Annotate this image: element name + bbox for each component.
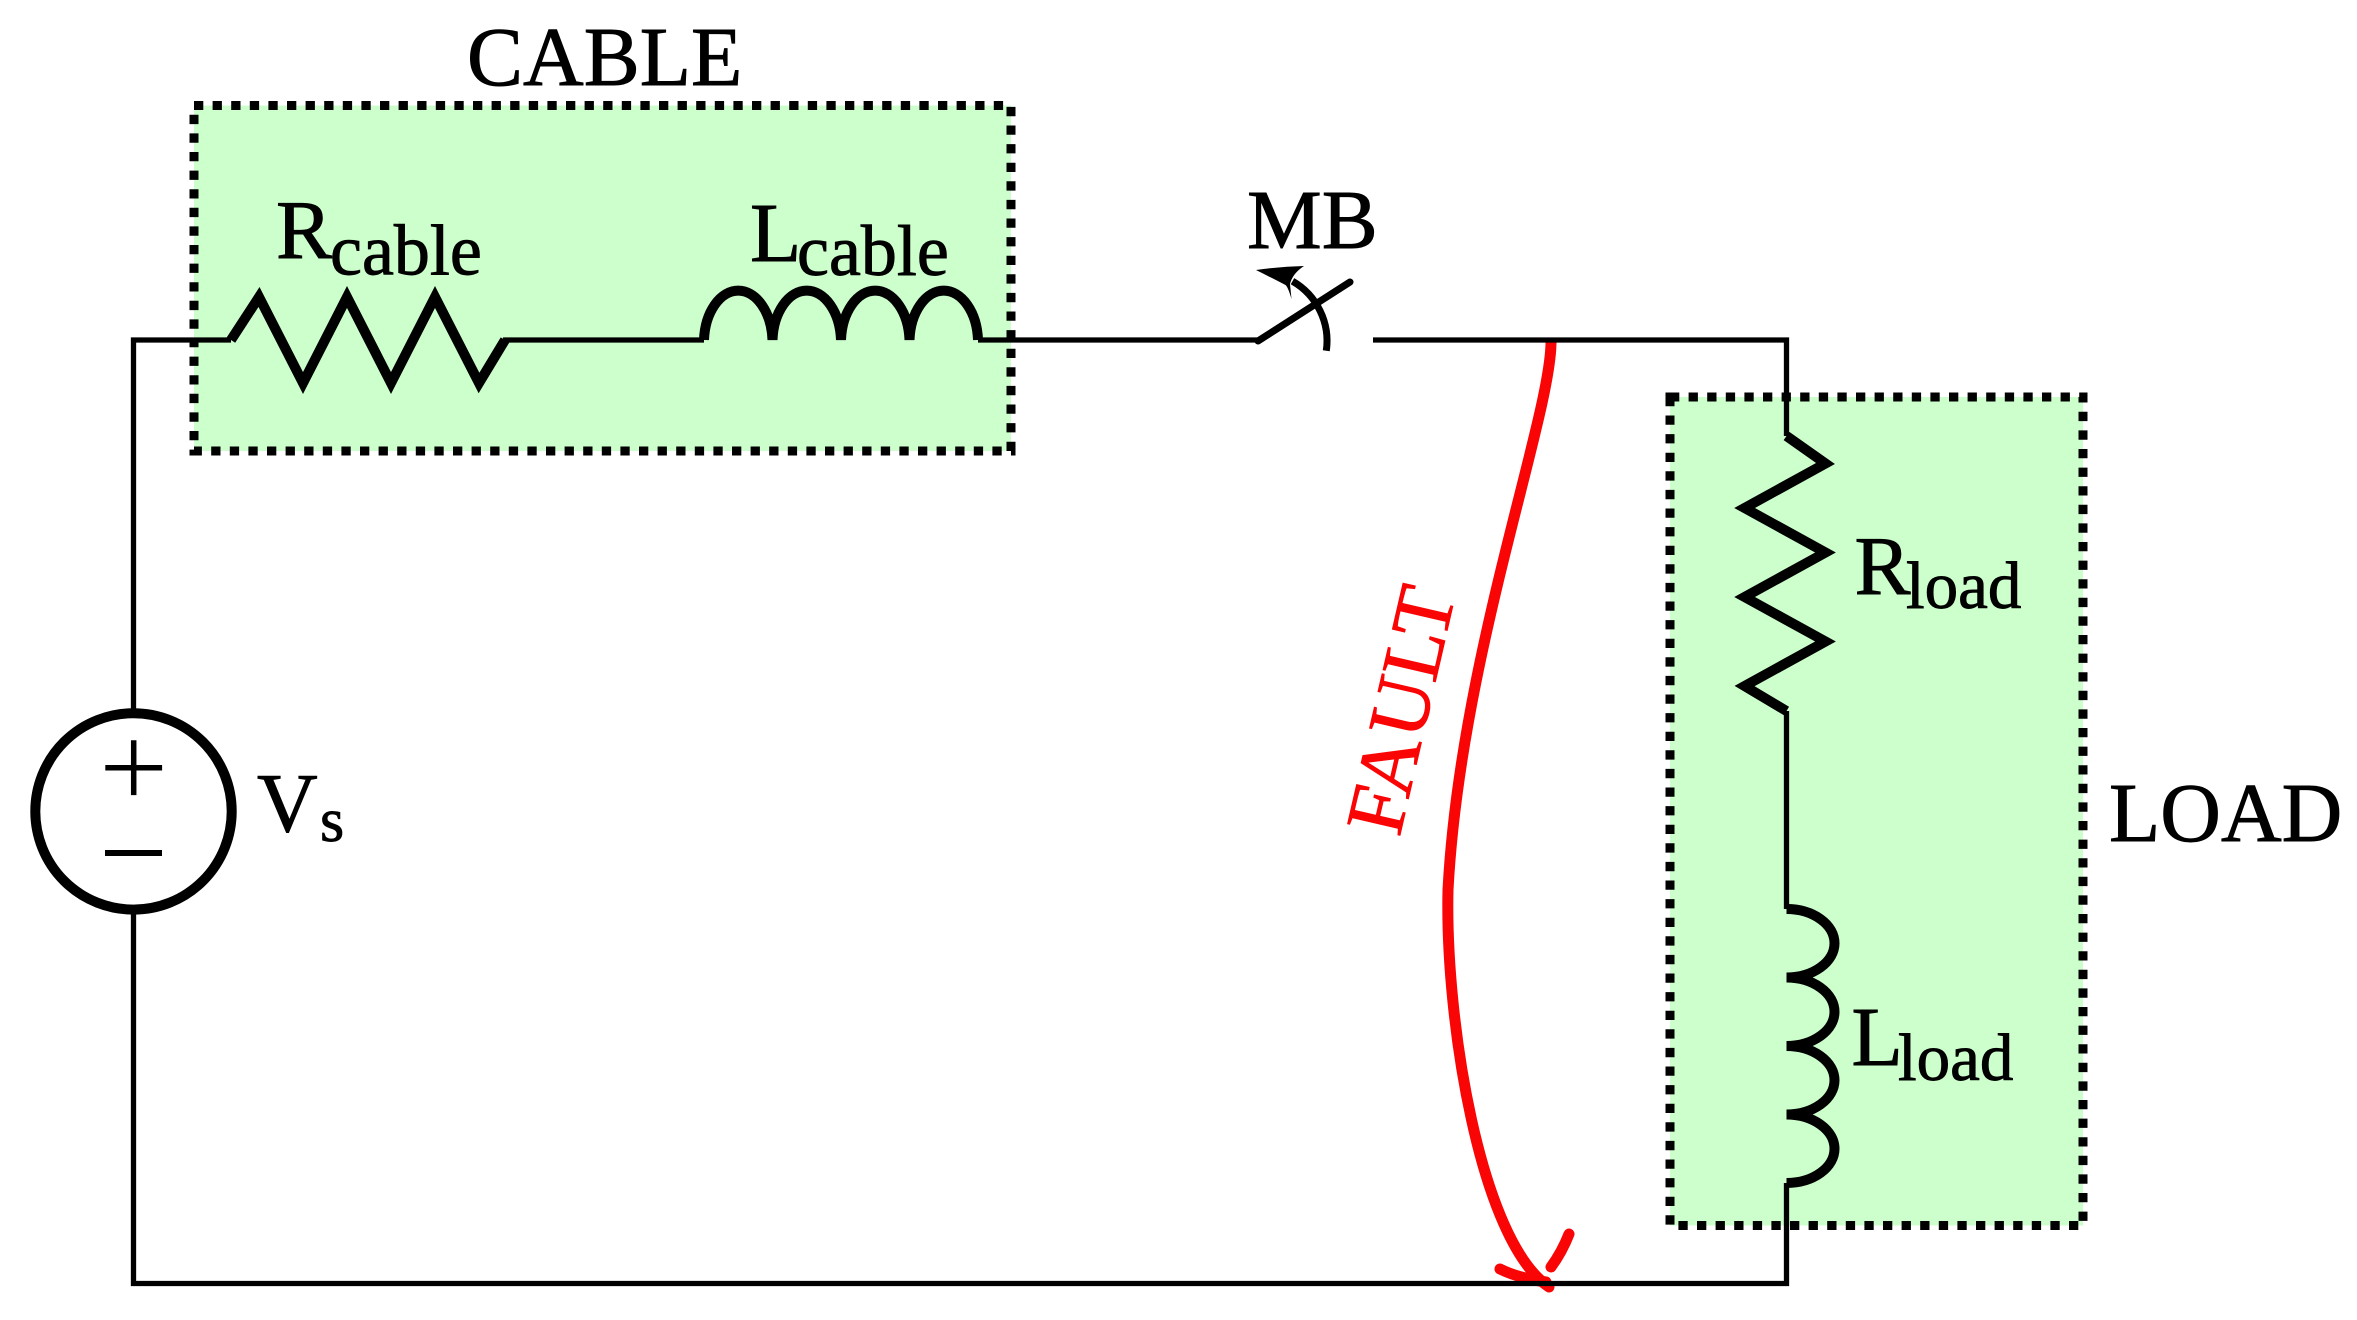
- svg-text:R: R: [1855, 520, 1911, 613]
- svg-text:cable: cable: [797, 211, 949, 291]
- svg-text:V: V: [257, 757, 318, 850]
- svg-text:L: L: [750, 187, 801, 280]
- svg-text:L: L: [1852, 991, 1903, 1084]
- svg-text:R: R: [276, 184, 332, 277]
- svg-text:load: load: [1898, 1021, 2013, 1095]
- svg-text:MB: MB: [1247, 174, 1378, 267]
- svg-text:cable: cable: [330, 211, 482, 291]
- svg-text:s: s: [320, 787, 344, 855]
- svg-text:LOAD: LOAD: [2109, 767, 2342, 860]
- svg-text:CABLE: CABLE: [467, 11, 742, 104]
- svg-text:load: load: [1906, 549, 2021, 623]
